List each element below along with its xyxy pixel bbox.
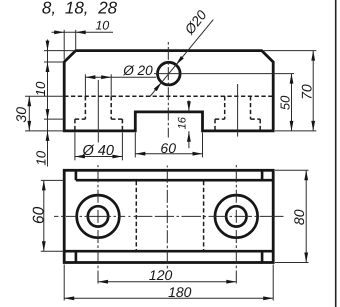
svg-text:28: 28 xyxy=(97,0,117,17)
top view lower inner edge xyxy=(64,250,273,253)
dim 30 bottom arrow xyxy=(27,121,31,131)
drawing frame right border xyxy=(335,0,337,307)
hidden edge line across at height 30 xyxy=(64,95,273,97)
right extension lines xyxy=(264,51,317,131)
dim 60 depth bottom arrow xyxy=(42,241,46,251)
dia40 dim extension lines xyxy=(75,132,123,160)
dim 180 extension lines xyxy=(64,265,273,301)
right hole circle dia20 top view xyxy=(226,206,246,226)
left counterbore step hidden lines xyxy=(75,118,123,120)
svg-text:Ø 40: Ø 40 xyxy=(82,143,114,159)
dim 60 depth line xyxy=(43,180,45,251)
dim 60 depth extension lines xyxy=(41,180,64,251)
svg-text:60: 60 xyxy=(160,140,176,156)
dim 10 chamfer height bottom arrow xyxy=(46,62,50,72)
dim 50 bottom arrow xyxy=(290,121,294,131)
svg-text:8,: 8, xyxy=(42,0,56,17)
left counterbore hidden lines dia40 xyxy=(75,119,123,131)
top view main vertical centerline xyxy=(166,166,168,270)
dimension 10 chamfer left arrow xyxy=(54,30,64,34)
svg-text:80: 80 xyxy=(291,209,307,225)
dim 60 notch extension lines xyxy=(135,132,202,157)
dim 60 notch right arrow xyxy=(193,152,203,156)
left hole vertical centerline top view xyxy=(97,165,99,285)
right counterbored hole hidden lines dia20 xyxy=(225,96,251,119)
dia20 hidden hole dim extension lines xyxy=(85,74,111,96)
dim 120 line xyxy=(98,281,236,283)
title task numbers 8, 18, 28 xyxy=(42,0,118,17)
dim 60 notch left arrow xyxy=(135,152,145,156)
right counterbore hidden lines dia40 xyxy=(215,119,260,131)
left extension lines xyxy=(25,51,76,131)
dim 50 top arrow xyxy=(290,74,294,84)
diagonal dia20 upper arrow xyxy=(175,56,184,66)
dia20 dim left arrow xyxy=(85,75,95,79)
left hole circle dia20 top view xyxy=(88,206,108,226)
dim 10 counterbore depth bottom arrow xyxy=(46,131,50,141)
top view horizontal centerline xyxy=(54,215,284,217)
dim 80 extension lines xyxy=(275,170,309,262)
right hole centerline front view xyxy=(237,84,239,137)
diagonal dia20 lower arrow xyxy=(154,81,163,91)
right hole vertical centerline top view xyxy=(235,165,237,285)
svg-text:16: 16 xyxy=(177,116,189,129)
top view outer outline xyxy=(64,170,273,262)
dia40 left arrow xyxy=(75,155,85,159)
svg-text:60: 60 xyxy=(30,206,47,224)
dim 120 right arrow xyxy=(226,280,236,284)
svg-text:10: 10 xyxy=(33,81,48,96)
dim 180 left arrow xyxy=(64,296,74,300)
left counterbored hole hidden lines dia20 xyxy=(85,96,111,119)
chamfer edge bottom right xyxy=(261,251,264,263)
dia40 right arrow xyxy=(112,155,122,159)
right counterbore step hidden lines xyxy=(215,118,260,120)
dim 30 top arrow xyxy=(27,96,31,106)
front view main vertical centerline xyxy=(167,41,169,138)
svg-text:30: 30 xyxy=(13,107,29,123)
dim 70 line xyxy=(312,51,314,131)
dim 80 bottom arrow xyxy=(304,253,308,263)
svg-text:120: 120 xyxy=(149,267,173,283)
dimension 30 hole depth line xyxy=(28,96,30,131)
svg-text:10: 10 xyxy=(95,19,109,33)
front view circle horizontal centerline xyxy=(154,73,294,75)
svg-text:180: 180 xyxy=(168,284,192,300)
top view upper inner edge xyxy=(76,179,273,182)
chamfer edge bottom left xyxy=(75,251,78,263)
dim 80 top arrow xyxy=(304,170,308,180)
left hole counterbore circle dia40 top view xyxy=(77,195,120,238)
right hole counterbore circle dia40 top view xyxy=(215,195,258,238)
dimension 10 chamfer line xyxy=(52,31,114,33)
svg-text:70: 70 xyxy=(299,84,315,100)
svg-text:10: 10 xyxy=(33,150,48,165)
svg-text:50: 50 xyxy=(277,95,292,110)
shared left dimension line xyxy=(47,40,49,167)
dim 70 top arrow xyxy=(311,51,315,61)
dim 70 bottom arrow xyxy=(311,121,315,131)
dim 10 chamfer height top arrow xyxy=(46,41,50,51)
dia20 dim line with shelf to circle xyxy=(85,76,156,78)
dim 16 bottom arrow xyxy=(187,132,191,142)
chamfer edge top left xyxy=(75,169,78,180)
dimension 10 chamfer extension lines xyxy=(64,30,76,60)
dim 16 lower segment with arrow xyxy=(188,131,190,148)
hole 20 circle in front view xyxy=(158,62,181,85)
svg-text:18,: 18, xyxy=(65,0,89,17)
dim 180 line xyxy=(64,297,273,299)
dim 16 upper segment with arrow xyxy=(188,100,190,112)
dimension 10 chamfer right arrow xyxy=(76,30,86,34)
hidden notch wall left in top view xyxy=(135,181,137,251)
dim 60 depth top arrow xyxy=(42,180,46,190)
front view outline of block with chamfers and bottom notch xyxy=(64,51,273,131)
left hole centerline front view xyxy=(97,80,99,143)
hidden notch wall right in top view xyxy=(203,181,205,251)
dim 80 line xyxy=(305,170,307,262)
dim 10 counterbore depth top arrow xyxy=(46,109,50,119)
dim 60 notch line xyxy=(135,153,202,155)
svg-text:Ø 20: Ø 20 xyxy=(122,63,153,78)
dia40 dim line xyxy=(75,156,123,158)
dim 120 left arrow xyxy=(98,280,108,284)
dim 50 line xyxy=(291,74,293,131)
dim 16 top arrow xyxy=(187,101,191,111)
chamfer edge top right xyxy=(261,169,264,180)
dia20 dim right arrow xyxy=(101,75,111,79)
dim 180 right arrow xyxy=(263,296,273,300)
diagonal dia20 dimension line through circle xyxy=(150,20,214,97)
